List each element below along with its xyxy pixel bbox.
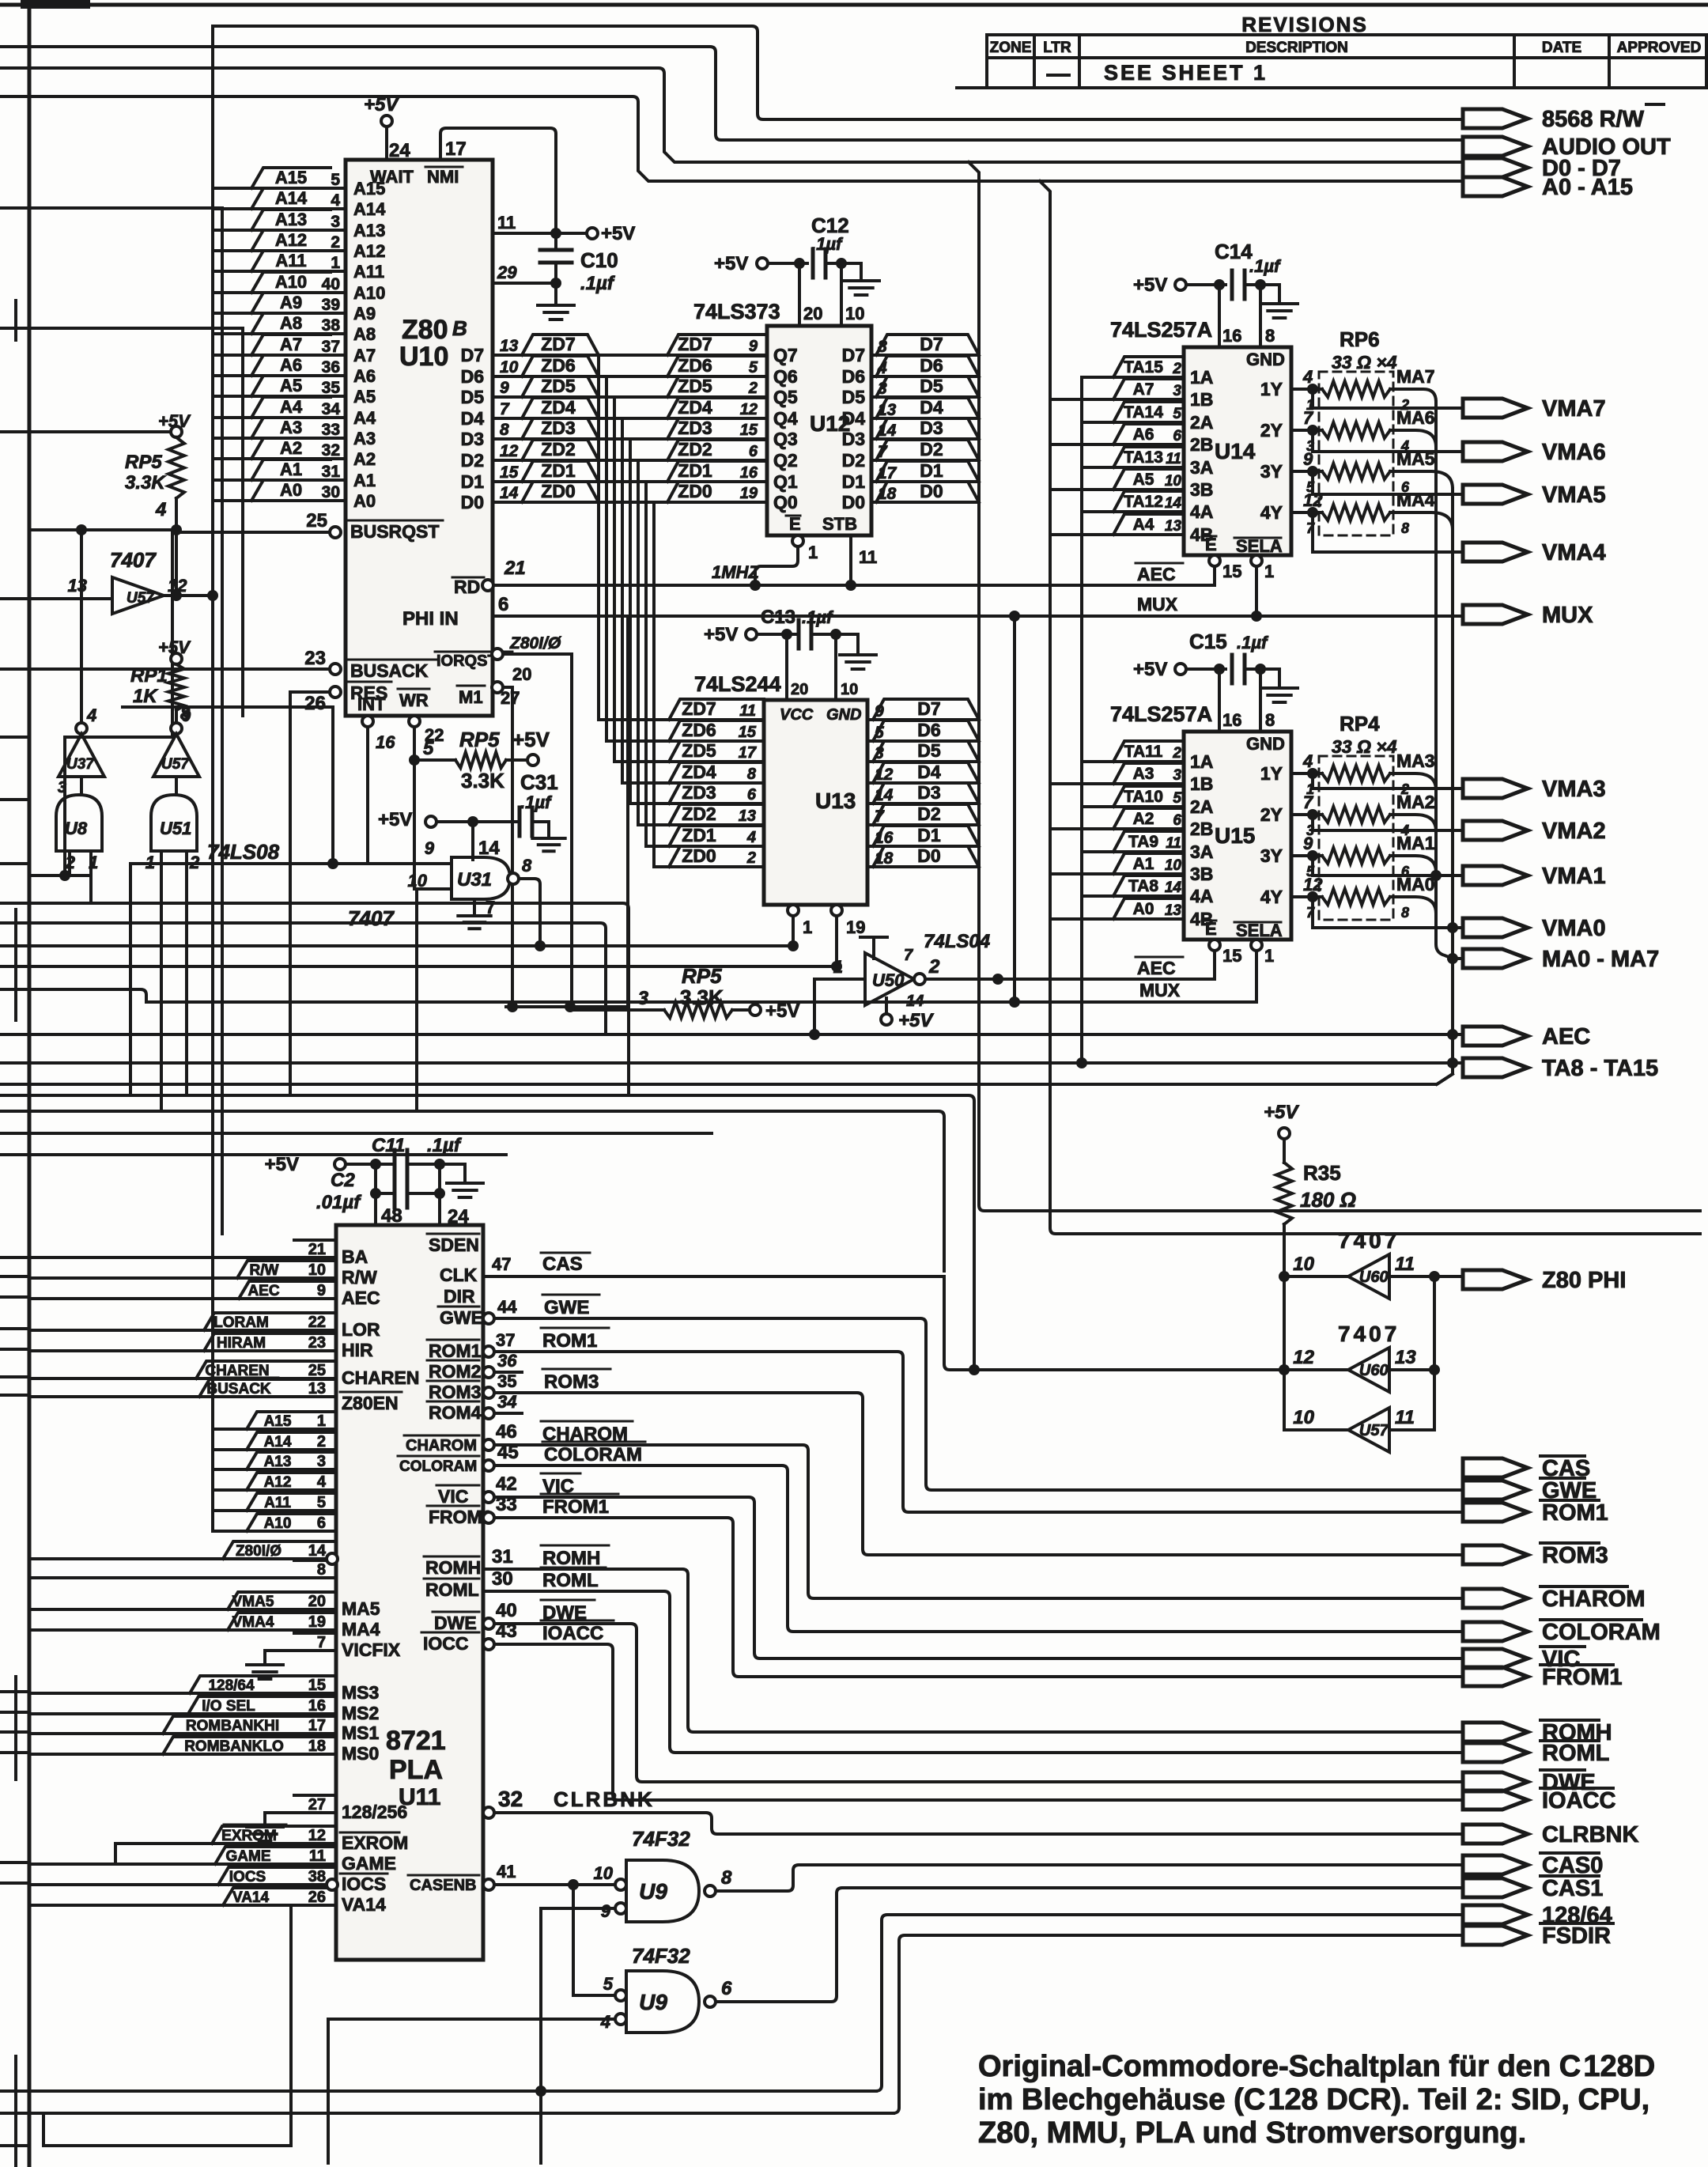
MUX vertical link	[1013, 616, 1016, 1002]
svg-text:A13: A13	[275, 210, 307, 229]
svg-text:16: 16	[308, 1697, 326, 1715]
svg-text:A12: A12	[353, 241, 385, 261]
svg-text:C13: C13	[761, 607, 795, 628]
svg-text:INT: INT	[357, 694, 386, 714]
buffer U57 7407 third	[1348, 1408, 1389, 1452]
svg-text:BUSACK: BUSACK	[350, 660, 429, 681]
svg-text:4Y: 4Y	[1260, 502, 1283, 523]
svg-text:9: 9	[425, 838, 435, 858]
svg-text:VMA5: VMA5	[232, 1594, 274, 1610]
svg-text:VMA7: VMA7	[1542, 396, 1606, 422]
svg-text:24: 24	[448, 1206, 469, 1227]
svg-text:GAME: GAME	[226, 1848, 271, 1865]
svg-text:VMA1: VMA1	[1542, 864, 1606, 889]
svg-text:Z80I/Ø: Z80I/Ø	[236, 1543, 282, 1560]
svg-text:10: 10	[1165, 473, 1182, 490]
svg-text:74LS373: 74LS373	[693, 300, 780, 323]
svg-text:8: 8	[500, 421, 509, 439]
EXROM lead corner	[114, 1844, 117, 1864]
svg-text:7407: 7407	[1338, 1228, 1400, 1253]
capacitor C2 .01uf	[376, 1192, 395, 1195]
svg-text:11: 11	[1166, 451, 1181, 467]
arrow ROML	[1463, 1743, 1528, 1762]
bus wire y1385 to 7407 input run	[29, 1095, 974, 1370]
svg-text:D7: D7	[920, 334, 943, 354]
arrow CHAROM	[1463, 1589, 1528, 1608]
svg-text:IOCS: IOCS	[229, 1869, 266, 1885]
svg-text:A2: A2	[280, 438, 302, 458]
svg-text:27: 27	[308, 1796, 326, 1813]
arrow VIC	[1463, 1649, 1528, 1668]
MA bus vertical x1837	[1437, 489, 1453, 1084]
svg-text:+5V: +5V	[1133, 274, 1167, 296]
svg-text:A6: A6	[353, 366, 376, 386]
svg-text:9: 9	[500, 379, 509, 397]
VMA1 wire and arrow	[1313, 856, 1463, 875]
svg-text:2Y: 2Y	[1260, 804, 1283, 825]
svg-text:15: 15	[308, 1677, 326, 1694]
svg-text:.1µf: .1µf	[580, 273, 615, 294]
svg-text:1: 1	[1264, 562, 1274, 581]
svg-text:4: 4	[155, 499, 166, 520]
svg-text:FROM1: FROM1	[542, 1496, 609, 1518]
svg-text:7: 7	[500, 400, 510, 418]
svg-text:A15: A15	[264, 1413, 292, 1430]
svg-text:A5: A5	[353, 387, 376, 407]
svg-text:ROML: ROML	[425, 1579, 479, 1600]
svg-text:1: 1	[808, 543, 818, 562]
svg-text:24: 24	[389, 140, 410, 161]
svg-text:1B: 1B	[1190, 773, 1213, 794]
svg-text:Q4: Q4	[773, 408, 798, 429]
pla U11 8721 body	[336, 1225, 483, 1960]
svg-text:E: E	[1205, 919, 1217, 939]
svg-text:16: 16	[740, 464, 758, 482]
svg-text:IOCC: IOCC	[423, 1633, 469, 1654]
svg-text:CHAREN: CHAREN	[342, 1367, 419, 1388]
bus wire band y1251 step	[29, 989, 146, 1002]
svg-text:ROMH: ROMH	[425, 1557, 481, 1578]
U31 output wire to U13 enables	[519, 879, 540, 946]
svg-text:TA8 - TA15: TA8 - TA15	[1542, 1056, 1658, 1081]
svg-text:ZD7: ZD7	[541, 334, 575, 354]
svg-text:2: 2	[331, 233, 340, 251]
svg-text:DATE: DATE	[1542, 40, 1581, 56]
svg-text:20: 20	[791, 681, 808, 698]
svg-text:D1: D1	[917, 825, 941, 845]
svg-text:ZD4: ZD4	[682, 762, 716, 782]
svg-text:A2: A2	[1133, 810, 1154, 828]
svg-text:7407: 7407	[1338, 1322, 1400, 1346]
svg-text:CLRBNK: CLRBNK	[554, 1787, 655, 1811]
svg-text:23: 23	[308, 1334, 326, 1352]
svg-text:ZD4: ZD4	[541, 397, 576, 418]
svg-text:CASENB: CASENB	[410, 1877, 476, 1894]
svg-text:GWE: GWE	[440, 1307, 483, 1328]
svg-text:MUX: MUX	[1139, 980, 1181, 1000]
svg-text:.1µf: .1µf	[427, 1135, 462, 1156]
svg-text:+5V: +5V	[898, 1010, 934, 1031]
svg-text:8: 8	[1401, 520, 1409, 536]
svg-text:20: 20	[803, 304, 822, 323]
svg-text:26: 26	[308, 1889, 326, 1906]
svg-text:C11: C11	[372, 1135, 405, 1156]
U12 power pins 20 and 10	[798, 263, 801, 326]
svg-text:ZD7: ZD7	[682, 698, 716, 719]
svg-text:7407: 7407	[110, 548, 157, 572]
svg-text:5: 5	[1173, 406, 1181, 422]
U31 input 9 wire	[130, 862, 452, 865]
svg-text:D4: D4	[461, 408, 485, 429]
svg-text:11: 11	[1395, 1254, 1415, 1275]
svg-text:33 Ω ×4: 33 Ω ×4	[1332, 736, 1397, 757]
U9 first input 10 wire from CASENB	[573, 1883, 615, 1886]
svg-text:A14: A14	[353, 199, 386, 219]
resistor RP5 3.3K pullup at WR	[409, 754, 420, 766]
bus wire band y1142	[29, 903, 629, 1095]
ground below C10	[554, 283, 557, 305]
svg-text:31: 31	[322, 463, 341, 481]
svg-text:45: 45	[497, 1442, 519, 1463]
svg-text:TA12: TA12	[1124, 493, 1163, 511]
svg-text:37: 37	[322, 338, 340, 356]
svg-text:74LS08: 74LS08	[207, 840, 280, 864]
svg-text:D3: D3	[920, 418, 943, 438]
svg-text:6: 6	[749, 443, 758, 460]
svg-text:1K: 1K	[133, 686, 158, 707]
resistor R35 180 ohm	[1283, 1139, 1286, 1163]
svg-text:A2: A2	[353, 449, 376, 469]
svg-text:MA7: MA7	[1396, 366, 1435, 387]
MUX wire to U14 select	[1255, 566, 1258, 616]
svg-text:35: 35	[497, 1371, 516, 1391]
svg-text:23: 23	[304, 648, 326, 669]
svg-text:SELA: SELA	[1236, 536, 1283, 556]
arrow Z80 PHI	[1463, 1270, 1528, 1289]
svg-text:DWE: DWE	[434, 1613, 477, 1633]
svg-text:47: 47	[492, 1254, 511, 1274]
svg-text:31: 31	[492, 1546, 513, 1568]
svg-text:+5V: +5V	[765, 1000, 799, 1022]
Z80 data bus drop wires from U10/U12 bus to U13	[597, 355, 600, 720]
svg-text:7: 7	[317, 1634, 326, 1651]
svg-text:14: 14	[308, 1542, 327, 1560]
svg-text:A6: A6	[1133, 425, 1154, 444]
arrow IOACC	[1463, 1791, 1528, 1810]
wire y894 to vertical x421	[123, 705, 333, 709]
svg-text:18: 18	[308, 1738, 326, 1755]
svg-text:D1: D1	[842, 471, 866, 492]
arrow COLORAM	[1463, 1622, 1528, 1641]
AEC wire to U15 enable	[1213, 951, 1216, 979]
svg-text:11: 11	[739, 702, 756, 720]
svg-text:MA3: MA3	[1396, 751, 1435, 771]
svg-text:TA13: TA13	[1124, 448, 1163, 467]
wire 128/64 from bottom bus	[29, 1915, 1463, 2091]
svg-text:43: 43	[496, 1621, 517, 1642]
svg-text:13: 13	[1165, 902, 1182, 919]
arrow ROM3	[1463, 1545, 1528, 1564]
arrow AUDIO OUT	[1463, 137, 1528, 156]
svg-text:VA14: VA14	[342, 1894, 386, 1915]
VMA7 wire and arrow	[1313, 389, 1463, 408]
U50 power bar symbol	[860, 937, 887, 959]
svg-text:33: 33	[322, 421, 340, 439]
svg-text:BUSACK: BUSACK	[206, 1381, 271, 1397]
svg-text:4A: 4A	[1190, 886, 1213, 906]
svg-text:A1: A1	[353, 471, 376, 490]
svg-text:3A: 3A	[1190, 841, 1213, 862]
svg-text:D3: D3	[917, 782, 940, 803]
resistor RP5 3.3K vertical	[171, 426, 182, 437]
U9 first output to CAS0	[716, 1865, 1463, 1891]
svg-text:IOACC: IOACC	[542, 1623, 603, 1644]
svg-text:IOACC: IOACC	[1542, 1788, 1616, 1813]
svg-text:GND: GND	[826, 706, 861, 724]
svg-text:A9: A9	[280, 293, 302, 312]
svg-text:.1µf: .1µf	[1237, 633, 1269, 652]
svg-text:14: 14	[1165, 495, 1182, 512]
svg-text:3: 3	[317, 1453, 326, 1470]
svg-text:ZD1: ZD1	[682, 825, 716, 845]
svg-text:VMA4: VMA4	[232, 1614, 274, 1631]
svg-text:IORQST: IORQST	[436, 652, 497, 670]
svg-text:ZD3: ZD3	[541, 418, 575, 438]
svg-text:A10: A10	[353, 283, 385, 303]
svg-text:A5: A5	[1133, 471, 1154, 489]
svg-text:+5V: +5V	[158, 411, 191, 431]
svg-text:4: 4	[600, 2012, 610, 2032]
U11 CLK pin 47 wire CAS staircase to 7407s	[483, 1275, 944, 1278]
svg-text:D7: D7	[461, 345, 484, 365]
arrow GWE	[1463, 1481, 1528, 1500]
svg-text:13: 13	[1395, 1347, 1416, 1368]
svg-text:REVISIONS: REVISIONS	[1241, 13, 1368, 36]
svg-text:ZD0: ZD0	[678, 481, 712, 501]
svg-text:2A: 2A	[1190, 412, 1213, 433]
svg-text:A4: A4	[1133, 516, 1154, 534]
svg-text:AEC: AEC	[342, 1288, 380, 1308]
svg-text:Z80: Z80	[402, 315, 448, 345]
U9 second output to CAS1	[716, 1888, 1463, 2002]
svg-text:VMA3: VMA3	[1542, 777, 1606, 802]
svg-text:MA4: MA4	[1396, 490, 1435, 510]
svg-text:ZD0: ZD0	[682, 845, 716, 866]
svg-text:40: 40	[322, 275, 340, 293]
vertical joining buffer outputs	[1433, 1276, 1436, 1430]
svg-text:RP6: RP6	[1340, 327, 1380, 351]
svg-text:CHAROM: CHAROM	[1542, 1586, 1646, 1612]
MA bus vertical x1816	[1436, 402, 1453, 959]
svg-text:8: 8	[317, 1561, 326, 1579]
arrow MA0 - MA7	[1453, 957, 1463, 960]
svg-text:D5: D5	[842, 387, 866, 407]
U13 enable pins 1 and 19	[788, 905, 799, 916]
and gate U51	[151, 795, 197, 851]
svg-text:29: 29	[497, 263, 517, 282]
svg-text:32: 32	[498, 1787, 523, 1811]
revisions table grid	[957, 35, 1708, 88]
svg-text:11: 11	[497, 213, 516, 233]
svg-text:MS0: MS0	[342, 1743, 379, 1764]
arrow CAS	[1463, 1458, 1528, 1477]
svg-text:ROML: ROML	[542, 1570, 599, 1591]
svg-text:36: 36	[322, 358, 340, 376]
VMA2 wire and arrow	[1313, 815, 1463, 830]
svg-text:U60: U60	[1359, 1269, 1389, 1286]
svg-text:U13: U13	[815, 789, 856, 813]
svg-text:26: 26	[304, 693, 326, 714]
svg-text:RP5: RP5	[682, 964, 722, 988]
svg-text:ZD2: ZD2	[682, 804, 716, 824]
svg-text:2: 2	[748, 380, 758, 397]
svg-text:36: 36	[497, 1351, 517, 1371]
svg-text:AEC: AEC	[1137, 564, 1176, 584]
svg-text:3B: 3B	[1190, 479, 1213, 500]
svg-text:IOCS: IOCS	[342, 1874, 386, 1894]
svg-text:74LS257A: 74LS257A	[1110, 318, 1212, 342]
svg-text:40: 40	[496, 1600, 517, 1621]
TA bus vertical	[1080, 377, 1083, 1063]
svg-text:ROM3: ROM3	[429, 1382, 481, 1402]
U11 CLRBNK pin 32	[483, 1807, 494, 1818]
svg-text:30: 30	[322, 483, 340, 501]
U11 left side pins	[29, 1256, 336, 1259]
svg-text:13: 13	[68, 576, 87, 596]
svg-text:6: 6	[747, 786, 757, 804]
svg-text:21: 21	[504, 558, 526, 579]
svg-text:1B: 1B	[1190, 389, 1213, 410]
VMA0 wire and arrow	[1313, 897, 1463, 928]
svg-text:A3: A3	[1133, 765, 1154, 783]
svg-text:SELA: SELA	[1236, 921, 1283, 940]
svg-text:D6: D6	[461, 366, 484, 387]
svg-text:ZD2: ZD2	[541, 439, 575, 459]
svg-text:4: 4	[746, 829, 756, 846]
svg-text:A12: A12	[264, 1474, 292, 1491]
svg-text:A15: A15	[353, 179, 385, 199]
svg-text:38: 38	[308, 1868, 326, 1885]
ground at VICFIX	[263, 1651, 266, 1665]
svg-text:GAME: GAME	[342, 1853, 396, 1874]
svg-text:GND: GND	[1246, 350, 1285, 369]
svg-text:ZD3: ZD3	[678, 418, 712, 438]
svg-text:NMI: NMI	[427, 167, 459, 187]
svg-text:2: 2	[746, 849, 756, 867]
svg-text:39: 39	[322, 296, 340, 314]
svg-text:Z80 PHI: Z80 PHI	[1542, 1268, 1626, 1293]
U13 power pin wires 20 10	[785, 634, 788, 700]
svg-text:9: 9	[601, 1901, 611, 1921]
svg-text:74LS244: 74LS244	[694, 672, 781, 696]
U13 input pins ZD7-ZD0 flags	[599, 718, 764, 721]
svg-text:A10: A10	[264, 1515, 292, 1532]
U50 output wire AEC to U15 enable	[925, 978, 1215, 981]
svg-text:15: 15	[1222, 946, 1241, 966]
U10 pin 29 wire	[493, 282, 556, 285]
svg-text:74F32: 74F32	[632, 1944, 690, 1968]
svg-text:1: 1	[145, 853, 155, 872]
svg-text:E: E	[1205, 535, 1217, 554]
svg-text:14: 14	[478, 838, 500, 859]
U50 input wire from AEC node	[814, 979, 865, 1034]
svg-text:MS1: MS1	[342, 1723, 380, 1743]
svg-text:3B: 3B	[1190, 864, 1213, 884]
bus wire band y1273	[506, 1005, 628, 1008]
svg-text:8: 8	[721, 1867, 732, 1889]
wire +5V to U31 power pin 14	[471, 822, 474, 860]
svg-text:E: E	[789, 514, 801, 534]
U8 pin wires down	[70, 851, 91, 903]
wire BUSRQST branch down left	[29, 737, 91, 875]
svg-text:.01µf: .01µf	[316, 1192, 361, 1213]
svg-text:I/O SEL: I/O SEL	[202, 1698, 255, 1715]
svg-text:D5: D5	[920, 376, 943, 396]
svg-text:ROM3: ROM3	[544, 1371, 599, 1393]
svg-text:1: 1	[803, 917, 812, 937]
svg-text:A8: A8	[280, 313, 302, 333]
svg-text:2: 2	[928, 956, 940, 978]
svg-text:C15: C15	[1189, 630, 1227, 653]
svg-text:D0: D0	[920, 481, 943, 501]
svg-text:A11: A11	[275, 251, 306, 270]
svg-text:ZD2: ZD2	[678, 439, 712, 459]
svg-text:11: 11	[1395, 1407, 1415, 1428]
svg-text:D1: D1	[461, 471, 485, 492]
svg-text:D6: D6	[842, 366, 865, 387]
svg-text:14: 14	[500, 484, 519, 502]
svg-text:D3: D3	[842, 429, 865, 449]
svg-text:3Y: 3Y	[1260, 461, 1283, 482]
svg-text:ZD7: ZD7	[678, 334, 712, 354]
svg-text:1Y: 1Y	[1260, 763, 1283, 784]
U37 wire up to node	[80, 530, 83, 723]
svg-text:ROMH: ROMH	[542, 1548, 600, 1569]
svg-text:Original-Commodore-Schaltplan: Original-Commodore-Schaltplan für den C …	[978, 2050, 1655, 2083]
svg-text:74LS257A: 74LS257A	[1110, 702, 1212, 726]
svg-text:TA10: TA10	[1124, 788, 1163, 806]
resistor RP5 3.3K second	[572, 1008, 664, 1012]
top border line	[0, 3, 1708, 7]
svg-text:2: 2	[189, 853, 200, 872]
svg-text:13: 13	[308, 1380, 326, 1397]
svg-text:COLORAM: COLORAM	[399, 1458, 477, 1475]
svg-text:im Blechgehäuse (C 128 DCR). T: im Blechgehäuse (C 128 DCR). Teil 2: SID…	[978, 2083, 1649, 2116]
svg-text:4: 4	[317, 1473, 327, 1491]
svg-text:5: 5	[423, 738, 434, 759]
svg-text:PLA: PLA	[389, 1755, 443, 1785]
svg-text:ZD0: ZD0	[541, 481, 575, 501]
svg-text:MS2: MS2	[342, 1703, 379, 1723]
svg-text:LOR: LOR	[342, 1319, 380, 1340]
svg-text:GND: GND	[1246, 734, 1285, 754]
svg-text:SEE SHEET 1: SEE SHEET 1	[1104, 61, 1268, 85]
svg-text:10: 10	[1293, 1254, 1314, 1275]
svg-text:6: 6	[1173, 812, 1181, 829]
svg-text:4Y: 4Y	[1260, 887, 1283, 907]
svg-text:MA6: MA6	[1396, 407, 1435, 428]
U10 pin 11 wire to +5V	[493, 232, 592, 235]
svg-text:VMA0: VMA0	[1542, 916, 1606, 941]
svg-text:+5V: +5V	[378, 809, 412, 830]
svg-text:CAS: CAS	[542, 1254, 583, 1275]
svg-text:TA9: TA9	[1128, 833, 1158, 851]
svg-text:17: 17	[445, 138, 467, 160]
svg-text:A14: A14	[275, 188, 308, 208]
svg-text:VCC: VCC	[780, 706, 814, 724]
svg-text:44: 44	[497, 1297, 517, 1317]
svg-text:VICFIX: VICFIX	[342, 1639, 401, 1660]
